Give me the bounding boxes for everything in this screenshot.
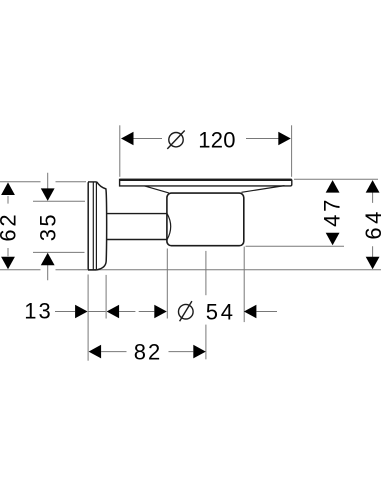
cone skirt left (145, 186, 169, 193)
escutcheon inner line 1 (92, 182, 94, 269)
arm top line (107, 213, 167, 215)
dim 120 dimension line right segment (246, 138, 280, 140)
svg-text:54: 54 (206, 299, 236, 324)
dim 47 bottom extension line (246, 245, 345, 247)
escutcheon left edge (87, 182, 89, 269)
escutcheon bottom edge (88, 269, 97, 271)
escutcheon inner line 2 (95, 182, 97, 269)
dim 54 right arrow (244, 305, 257, 319)
svg-text:62: 62 (0, 212, 20, 242)
arm end cap arc (167, 214, 171, 240)
dim 35 dimension line segments (47, 173, 49, 280)
dim 82 right arrow (193, 345, 206, 359)
bottom long extension line (0, 269, 381, 271)
dim 62 top arrow (1, 182, 15, 195)
extension line x106 below dome (105, 275, 107, 319)
dim 64 dimension line segments (372, 192, 374, 257)
svg-text:82: 82 (134, 340, 162, 365)
dim 35 top arrow (41, 188, 55, 201)
dim 13 dimension line tail left (55, 311, 75, 313)
dim 47 bottom arrow (326, 233, 340, 246)
svg-text:47: 47 (320, 197, 345, 227)
dim 47 top arrow (326, 180, 340, 193)
dim 82 left arrow (89, 345, 102, 359)
dim 62 dimension line segments (7, 196, 9, 256)
dim 54 left leader (119, 311, 154, 313)
dim 35 top extension line (33, 200, 85, 202)
dim 120 right extension line (291, 125, 293, 177)
svg-text:64: 64 (361, 208, 381, 239)
svg-text:13: 13 (24, 298, 52, 323)
dim 35 bottom extension line (33, 251, 85, 253)
center line lower segment (205, 325, 207, 360)
dim 54 right leader (256, 311, 277, 313)
arm bottom line (107, 239, 167, 241)
dim 13 dimension line middle (89, 311, 106, 313)
extension line x167 below cylinder (166, 249, 168, 319)
center line upper segment (205, 251, 207, 295)
dim 120 right arrow (278, 132, 291, 146)
dim 54 left arrow (154, 305, 167, 319)
dim 64 top arrow (366, 180, 380, 193)
dish plate top edge thick (120, 179, 292, 181)
dim 62 top extension line (0, 181, 86, 183)
dim 82 right tail (169, 351, 194, 353)
escutcheon dome profile (97, 182, 107, 270)
escutcheon top edge (88, 181, 97, 183)
dim 120 dimension line left segment (132, 138, 162, 140)
dim 120 left extension line (119, 125, 121, 177)
cone skirt right (242, 186, 285, 193)
holder cylinder (167, 193, 244, 246)
dim 120 left arrow (121, 132, 134, 146)
diameter symbol top (169, 133, 183, 147)
extension line x88 below escutcheon (87, 275, 89, 361)
diameter symbol bottom (179, 304, 194, 319)
extension line x243.7 below cylinder (243, 247, 245, 323)
dim 82 left tail (101, 351, 126, 353)
dim 62 bottom arrow (1, 257, 15, 270)
dim 13 right arrow (107, 305, 120, 319)
svg-text:35: 35 (36, 212, 61, 241)
svg-text:120: 120 (198, 128, 236, 153)
dim 13 left arrow (75, 305, 88, 319)
dish plate (120, 179, 292, 186)
dim 35 bottom arrow (41, 253, 55, 265)
dim 64 bottom arrow (366, 257, 380, 270)
dim 47/64 top extension line (294, 178, 378, 180)
